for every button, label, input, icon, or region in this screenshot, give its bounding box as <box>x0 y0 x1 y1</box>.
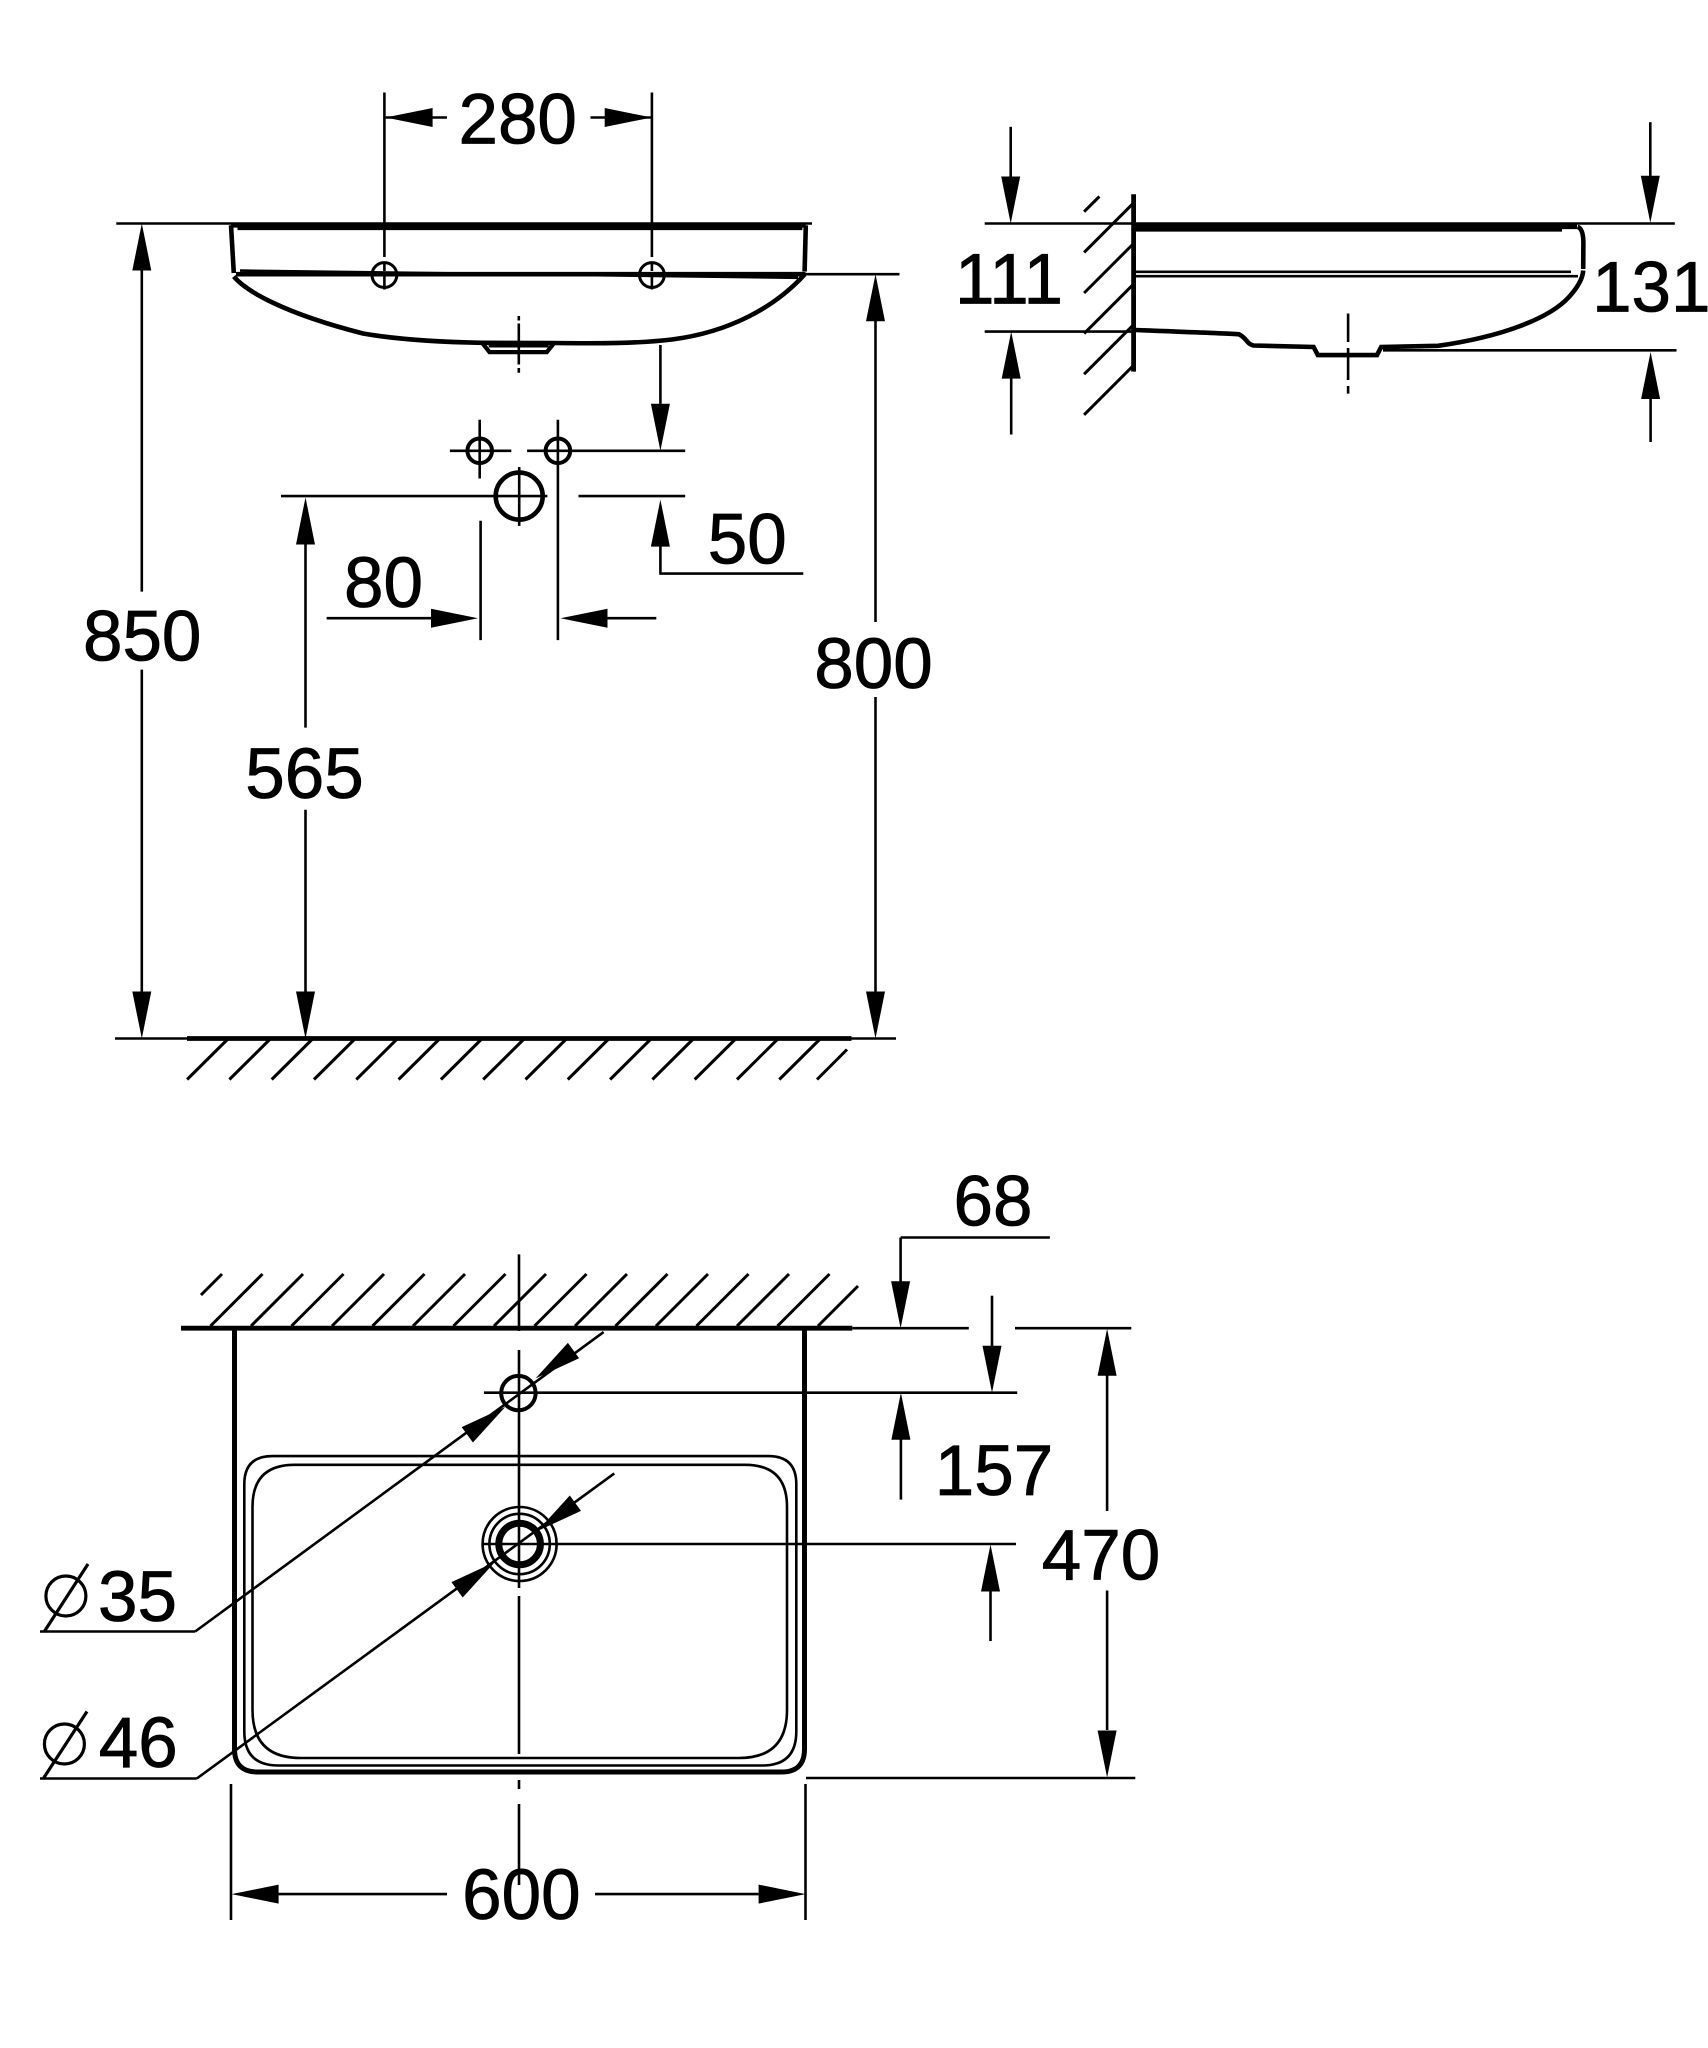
callout Ø46: upper arrow <box>538 1496 582 1532</box>
dimension 157: upper arrow (down at faucet line) <box>983 1346 1002 1393</box>
dimension 470: lower arrow (down at bottom line) <box>1098 1731 1117 1778</box>
front view: basin top edge (thick) <box>231 223 806 228</box>
dimension 50: upper arrow line <box>659 345 662 404</box>
svg-text:68: 68 <box>954 1163 1033 1242</box>
callout Ø35: label underline <box>40 1630 195 1633</box>
dimension 157: lower arrow line <box>989 1590 992 1641</box>
dimension 600: line left part <box>279 1893 447 1896</box>
front view: 800 reference line (shelf level, right) <box>806 273 900 276</box>
front view: basin centerline (dash-dot) <box>517 316 520 373</box>
front view: left small hole h-centerline <box>450 449 511 452</box>
side view: bottom-right reference line (131) <box>1383 349 1677 352</box>
plan view: faucet hole h-centerline / 157 upper reference <box>484 1391 1017 1394</box>
dimension 157: lower arrow (up at drain line) <box>981 1545 1000 1592</box>
callout Ø35: diameter symbol <box>44 1564 88 1632</box>
dimension 850: arrow down at floor <box>132 992 151 1039</box>
dimension 111: upper arrow line <box>1009 127 1012 177</box>
svg-text:35: 35 <box>98 1558 177 1637</box>
dimension 131: upper arrow (down) <box>1641 176 1660 223</box>
svg-text:600: 600 <box>462 1856 580 1935</box>
front view: top reference line (basin rim level) <box>116 222 812 225</box>
dimension 68: lower arrow line <box>900 1438 903 1499</box>
svg-text:850: 850 <box>83 598 201 677</box>
front view: left hole centerline below <box>383 263 386 290</box>
front view: right small hole <box>546 439 571 464</box>
plan view: drain h-centerline / 157 lower reference <box>482 1543 1016 1546</box>
side view: wall hatching <box>1084 197 1134 415</box>
dimension 80: right arrow (pointing left) <box>561 609 608 628</box>
dimension 470: line upper part <box>1106 1374 1109 1511</box>
plan view: wall reference line right part a <box>852 1327 969 1330</box>
svg-text:280: 280 <box>458 81 576 160</box>
callout Ø46: lower arrow <box>452 1562 496 1598</box>
side view: basin top inner thin line <box>1136 229 1562 232</box>
dimension 800: line upper part <box>874 320 877 622</box>
dimension 68: bracket line <box>901 1236 1050 1239</box>
dimension 280: right arrow <box>605 108 652 127</box>
front view: right mounting hole <box>640 263 665 288</box>
dimension 600: right arrow (pointing right) <box>759 1885 806 1904</box>
dimension 80: left extension line <box>479 521 482 640</box>
svg-text:470: 470 <box>1042 1517 1160 1596</box>
svg-text:46: 46 <box>99 1704 178 1783</box>
plan view: basin inner bowl outline <box>253 1465 788 1758</box>
svg-text:80: 80 <box>344 544 423 623</box>
front view: 50 lower reference line <box>579 495 686 498</box>
dimension 565: arrow up at faucet line <box>296 498 315 545</box>
dimension 565: line upper part <box>304 543 307 728</box>
side view: wall line <box>1131 194 1136 371</box>
dimension 470: line lower part <box>1106 1591 1109 1731</box>
dimension 50: upper arrow <box>651 404 670 451</box>
side view: bottom-left reference line (111) <box>985 330 1134 333</box>
front view: basin right edge <box>805 225 806 271</box>
dimension 50: lower arrow tail <box>659 545 662 573</box>
callout Ø46: leader line <box>197 1473 615 1778</box>
dimension 600: right extension line <box>804 1784 807 1920</box>
side view: basin bottom profile <box>1134 271 1583 356</box>
svg-text:565: 565 <box>245 735 363 814</box>
callout Ø46: label underline <box>40 1777 197 1780</box>
dimension 50: bracket line <box>659 572 803 575</box>
dimension 111: lower arrow line <box>1010 377 1013 435</box>
dimension 68: upper arrow line <box>899 1238 902 1282</box>
dimension 280: left extension line <box>383 93 386 258</box>
front view: left small hole v-centerline <box>478 420 481 479</box>
dimension 280: right extension line <box>651 93 654 258</box>
front view: right small hole v-centerline / 80-extension <box>557 420 560 640</box>
dimension 600: line right part <box>595 1893 759 1896</box>
dimension 131: lower arrow line <box>1649 398 1652 443</box>
svg-text:131: 131 <box>1592 249 1708 328</box>
front view: faucet hole h-centerline / 565 reference <box>281 495 547 498</box>
front view: basin left edge <box>231 225 234 273</box>
dimension 600: left extension line <box>230 1784 233 1920</box>
plan view: basin outer outline (thick) <box>235 1328 805 1772</box>
callout Ø35: leader line <box>195 1332 603 1631</box>
side view: basin top edge (thick) <box>1135 225 1577 230</box>
svg-text:111: 111 <box>955 241 1063 320</box>
dimension 111: upper arrow (down) <box>1001 177 1020 224</box>
plan view: drain outer circle <box>483 1507 557 1581</box>
dimension 470: upper arrow (up at wall line) <box>1098 1329 1117 1376</box>
plan view: faucet hole <box>501 1376 535 1410</box>
side view: top reference line <box>985 222 1675 225</box>
plan view: drain hole (thick ring) <box>499 1523 541 1565</box>
plan view: wall line (thick) <box>181 1326 852 1331</box>
dimension 565: line lower part <box>304 810 307 992</box>
dimension 131: lower arrow (up) <box>1641 352 1660 399</box>
callout Ø35: lower arrow <box>462 1407 506 1443</box>
front view: basin rim inner line (thin) <box>238 228 803 231</box>
svg-text:800: 800 <box>814 625 932 704</box>
dimension 800: arrow up at shelf line <box>866 274 885 321</box>
plan view: vertical centerline (dashed) <box>518 1254 521 1885</box>
front view: left mounting hole <box>372 263 397 288</box>
dimension 131: upper arrow line <box>1649 122 1652 176</box>
front view: right hole centerline below <box>651 263 654 290</box>
callout Ø46: diameter symbol <box>43 1712 87 1780</box>
dimension 80: dimension line right part <box>608 617 657 620</box>
dimension 80: dimension line left part <box>327 617 431 620</box>
plan view: basin inner rim outline <box>244 1456 796 1765</box>
dimension 50: lower arrow <box>651 500 670 547</box>
dimension 280: dimension line right stub <box>591 116 652 119</box>
dimension 850: arrow up at rim line <box>132 224 151 271</box>
front view: floor hatching <box>187 1039 847 1080</box>
front view: right small hole h-centerline <box>527 449 685 452</box>
svg-text:157: 157 <box>935 1432 1053 1511</box>
dimension 68: upper arrow (down at wall) <box>891 1281 910 1328</box>
dimension 68: lower arrow (up at faucet line) <box>891 1393 910 1440</box>
plan view: wall hatching <box>201 1274 858 1326</box>
dimension 80: left arrow (pointing right) <box>431 609 478 628</box>
dimension 850: line upper part <box>141 269 144 592</box>
dimension 280: left arrow <box>386 108 433 127</box>
plan view: drain middle circle <box>489 1514 549 1574</box>
front view: shelf inner thin line <box>240 271 798 278</box>
side view: rim lower line lower <box>1136 275 1578 278</box>
dimension 850: line lower part <box>141 670 144 992</box>
dimension 800: arrow down at floor <box>866 992 885 1039</box>
side view: drain centerline (dash-dot) <box>1347 314 1350 394</box>
front view: left small hole <box>467 439 492 464</box>
dimension 157: upper arrow line <box>991 1296 994 1346</box>
dimension 565: arrow down at floor <box>296 992 315 1039</box>
dimension 600: left arrow (pointing left) <box>232 1885 279 1904</box>
plan view: wall reference line right part b <box>1015 1327 1131 1330</box>
front view: floor line thin <box>115 1037 896 1040</box>
svg-text:50: 50 <box>708 500 787 579</box>
dimension 111: lower arrow (up) <box>1002 332 1021 379</box>
front view: overflow tab inner line <box>489 345 549 348</box>
side view: basin right edge (rounded corner) <box>1578 227 1584 269</box>
side view: rim lower line upper <box>1136 270 1571 273</box>
front view: faucet hole <box>496 473 543 520</box>
front view: shelf front edge (thick) <box>236 272 806 277</box>
plan view: bottom reference line (470) <box>806 1777 1135 1780</box>
dimension 800: line lower part <box>874 697 877 992</box>
front view: floor line thick <box>187 1036 852 1041</box>
front view: overflow tab outline <box>482 343 554 352</box>
dimension 280: dimension line left stub <box>386 116 447 119</box>
front view: faucet hole v-centerline <box>518 467 521 526</box>
front view: basin under-curve <box>234 275 805 344</box>
callout Ø35: upper arrow <box>536 1343 580 1379</box>
